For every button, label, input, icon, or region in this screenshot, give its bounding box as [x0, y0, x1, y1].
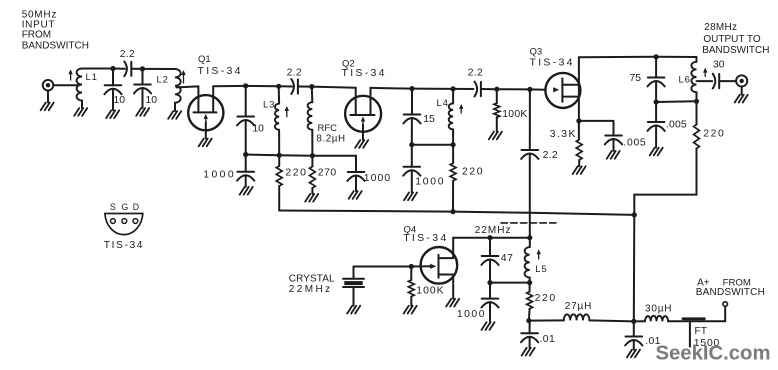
svg-text:2.2: 2.2 — [120, 49, 135, 60]
svg-text:L3: L3 — [263, 100, 275, 111]
svg-text:.005: .005 — [666, 119, 687, 130]
svg-text:220: 220 — [535, 293, 557, 304]
svg-text:G: G — [121, 202, 128, 212]
svg-text:TIS-34: TIS-34 — [342, 67, 387, 79]
svg-text:270: 270 — [318, 167, 337, 178]
svg-text:47: 47 — [501, 253, 514, 264]
svg-text:30µH: 30µH — [645, 304, 672, 315]
svg-text:L5: L5 — [535, 264, 547, 275]
svg-text:2.2: 2.2 — [468, 68, 483, 79]
svg-text:220: 220 — [285, 167, 307, 178]
svg-text:75: 75 — [630, 73, 642, 84]
svg-text:10: 10 — [146, 95, 158, 106]
svg-text:BANDSWITCH: BANDSWITCH — [22, 40, 89, 51]
svg-text:RFC: RFC — [318, 123, 338, 134]
svg-text:SeekIC.com: SeekIC.com — [656, 342, 771, 364]
svg-text:30: 30 — [713, 60, 725, 71]
svg-text:28MHz: 28MHz — [704, 22, 737, 33]
svg-text:OUTPUT TO: OUTPUT TO — [703, 34, 760, 45]
svg-text:TIS-34: TIS-34 — [104, 240, 144, 251]
svg-text:FT: FT — [695, 326, 708, 337]
svg-text:1000: 1000 — [457, 309, 486, 320]
svg-text:1000: 1000 — [364, 173, 392, 184]
svg-text:L4: L4 — [437, 98, 449, 109]
svg-text:1000: 1000 — [203, 169, 236, 180]
svg-text:.01: .01 — [540, 334, 556, 345]
svg-text:15: 15 — [423, 114, 435, 125]
svg-text:FROM: FROM — [22, 30, 51, 41]
svg-text:1000: 1000 — [415, 176, 445, 187]
svg-text:S: S — [110, 202, 116, 212]
svg-text:D: D — [133, 202, 139, 212]
svg-text:TIS-34: TIS-34 — [198, 65, 243, 77]
svg-text:8.2µH: 8.2µH — [316, 133, 345, 144]
svg-text:.005: .005 — [623, 138, 646, 149]
svg-text:TIS-34: TIS-34 — [403, 232, 448, 244]
svg-text:3.3K: 3.3K — [550, 129, 577, 140]
svg-text:L6: L6 — [679, 75, 691, 86]
svg-text:22MHz: 22MHz — [289, 284, 333, 295]
svg-text:27µH: 27µH — [565, 301, 592, 312]
svg-text:100K: 100K — [416, 286, 444, 297]
svg-text:22MHz: 22MHz — [475, 225, 512, 236]
svg-text:CRYSTAL: CRYSTAL — [289, 274, 335, 285]
svg-text:100K: 100K — [502, 109, 527, 120]
svg-text:BANDSWITCH: BANDSWITCH — [696, 287, 765, 298]
svg-text:10: 10 — [252, 124, 264, 135]
svg-text:BANDSWITCH: BANDSWITCH — [702, 45, 769, 56]
svg-text:2.2: 2.2 — [287, 68, 302, 79]
svg-text:L1: L1 — [86, 72, 98, 83]
svg-text:L2: L2 — [157, 75, 169, 86]
svg-text:2.2: 2.2 — [543, 150, 558, 161]
svg-text:Q1: Q1 — [198, 54, 211, 65]
svg-text:220: 220 — [462, 166, 484, 177]
svg-text:TIS-34: TIS-34 — [530, 56, 575, 68]
svg-text:220: 220 — [703, 129, 725, 140]
svg-text:10: 10 — [114, 95, 126, 106]
